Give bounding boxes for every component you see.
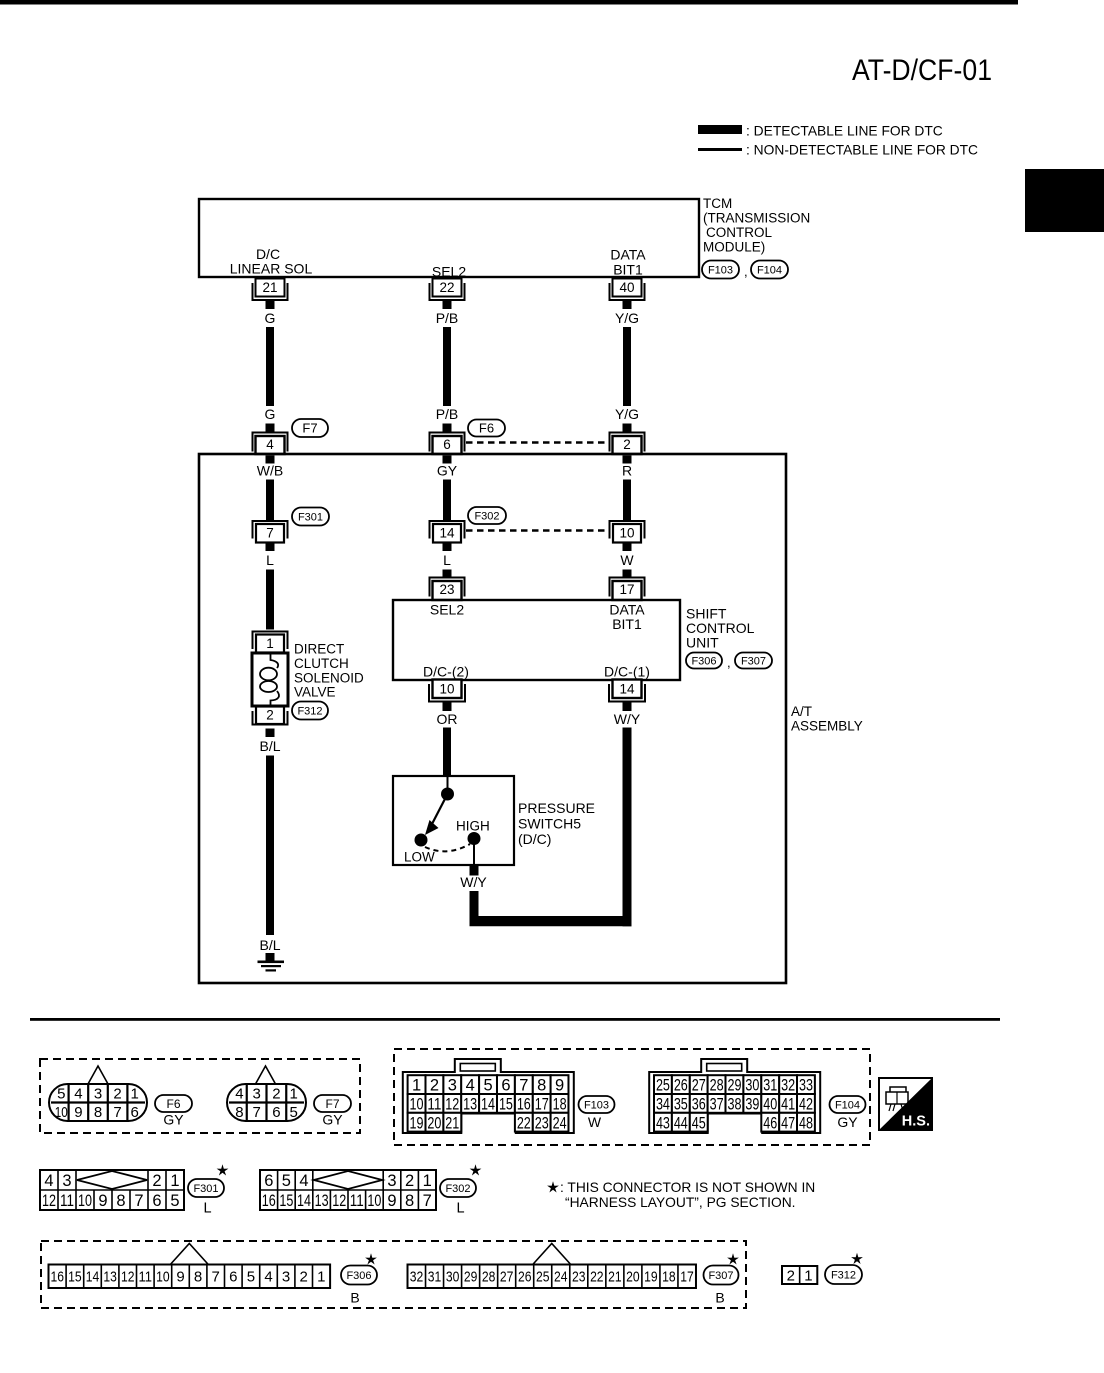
connector F306 oval label: [341, 1266, 377, 1285]
svg-text:DATA: DATA: [610, 247, 646, 263]
svg-text:6: 6: [272, 1104, 280, 1121]
svg-text:5: 5: [282, 1172, 291, 1190]
svg-text:5: 5: [289, 1104, 297, 1121]
connector F312 oval (solenoid): [292, 702, 328, 720]
svg-text:HIGH: HIGH: [456, 819, 490, 834]
svg-text:9: 9: [387, 1192, 396, 1210]
svg-text:F301: F301: [298, 511, 323, 523]
svg-text:F307: F307: [741, 655, 766, 667]
svg-text:DIRECT: DIRECT: [294, 642, 344, 657]
svg-text:31: 31: [763, 1077, 777, 1095]
svg-text:17: 17: [619, 582, 634, 597]
svg-text:15: 15: [499, 1096, 513, 1114]
connector view F307: [533, 1244, 571, 1265]
svg-text:22: 22: [517, 1114, 531, 1132]
svg-text:6: 6: [229, 1269, 237, 1286]
svg-text:P/B: P/B: [436, 406, 459, 422]
svg-text:1: 1: [266, 636, 274, 651]
connector F306 oval (SCU): [686, 653, 722, 669]
wire stub below boundary pin (GY): [443, 456, 452, 464]
wire OR to pressure switch: [443, 728, 451, 776]
svg-text:25: 25: [536, 1269, 550, 1286]
svg-text:39: 39: [745, 1096, 759, 1114]
svg-text:17: 17: [680, 1269, 694, 1286]
svg-text:15: 15: [279, 1192, 293, 1210]
svg-text:: DETECTABLE LINE FOR DTC: : DETECTABLE LINE FOR DTC: [746, 124, 943, 139]
wire GY: [443, 480, 451, 522]
svg-text:24: 24: [553, 1114, 567, 1132]
svg-text:14: 14: [297, 1192, 311, 1210]
svg-text:4: 4: [466, 1077, 475, 1095]
solenoid pin 2: [256, 707, 284, 725]
SCU pin 17: [610, 578, 645, 597]
svg-text:46: 46: [763, 1114, 777, 1132]
svg-text:SEL2: SEL2: [430, 602, 464, 618]
svg-text:35: 35: [674, 1096, 688, 1114]
svg-text:11: 11: [427, 1096, 441, 1114]
svg-text:GY: GY: [437, 463, 458, 479]
HIGH contact dot: [468, 832, 481, 845]
svg-text:6: 6: [152, 1192, 161, 1210]
TCM box: [199, 199, 699, 277]
svg-text:F306: F306: [691, 655, 716, 667]
legend: detectable line sample: [698, 125, 742, 134]
svg-text:G: G: [265, 310, 276, 326]
svg-text:F312: F312: [831, 1269, 856, 1281]
svg-text:W/Y: W/Y: [460, 874, 487, 890]
svg-text:41: 41: [781, 1096, 795, 1114]
svg-text:4: 4: [299, 1172, 308, 1190]
svg-text:,: ,: [744, 264, 748, 279]
wire W/Y col3 down: [623, 728, 632, 927]
wire stub below solenoid: [266, 729, 275, 738]
svg-text:A/T: A/T: [791, 704, 812, 719]
wire W/B: [266, 480, 274, 522]
separator rule: [30, 1018, 1000, 1021]
H.S. connector glyph: [886, 1087, 908, 1104]
connector view F103: [403, 1059, 574, 1133]
svg-text:1: 1: [170, 1172, 179, 1190]
svg-text:L: L: [456, 1201, 464, 1217]
svg-text:38: 38: [727, 1096, 741, 1114]
switch common contact dot: [441, 788, 454, 801]
svg-text:10: 10: [55, 1104, 68, 1121]
svg-text:G: G: [265, 406, 276, 422]
ground symbol: [258, 961, 285, 964]
svg-text:18: 18: [662, 1269, 676, 1286]
svg-text:W/Y: W/Y: [614, 711, 641, 727]
svg-text:5: 5: [483, 1077, 492, 1095]
svg-text:15: 15: [68, 1269, 82, 1286]
svg-text:CONTROL: CONTROL: [706, 225, 772, 240]
svg-text:9: 9: [98, 1192, 107, 1210]
svg-text:F7: F7: [325, 1097, 339, 1111]
svg-text:16: 16: [262, 1192, 276, 1210]
svg-text:B: B: [350, 1290, 359, 1306]
dashed group box F103/F104: [394, 1049, 870, 1145]
svg-text:32: 32: [781, 1077, 795, 1095]
svg-text:1: 1: [317, 1269, 325, 1286]
svg-text:: NON-DETECTABLE LINE FOR DTC: : NON-DETECTABLE LINE FOR DTC: [746, 143, 978, 158]
svg-text:LOW: LOW: [404, 850, 435, 865]
wire stub below boundary pin (R): [623, 456, 632, 464]
svg-text:34: 34: [656, 1096, 670, 1114]
svg-text:VALVE: VALVE: [294, 685, 336, 700]
solenoid pin 1: [253, 632, 288, 650]
svg-text:6: 6: [443, 437, 451, 452]
svg-text:9: 9: [176, 1269, 184, 1286]
svg-text:27: 27: [692, 1077, 706, 1095]
svg-text:13: 13: [103, 1269, 117, 1286]
svg-text:40: 40: [619, 280, 634, 295]
TCM pin 21: [256, 279, 285, 297]
svg-text:1: 1: [804, 1267, 812, 1284]
connector view F306: [170, 1244, 208, 1265]
svg-text:9: 9: [555, 1077, 564, 1095]
connector F301 oval label: [188, 1179, 224, 1197]
connector view F7: [256, 1066, 276, 1084]
svg-text:ASSEMBLY: ASSEMBLY: [791, 719, 863, 734]
star F301: [217, 1164, 229, 1175]
svg-text:12: 12: [42, 1192, 56, 1210]
connector F312 oval label: [825, 1265, 862, 1284]
svg-text:19: 19: [410, 1114, 424, 1132]
star F306: [365, 1253, 377, 1264]
svg-text:2: 2: [266, 708, 274, 723]
svg-text:21: 21: [262, 280, 277, 295]
svg-text:3: 3: [252, 1086, 260, 1103]
svg-text:25: 25: [656, 1077, 670, 1095]
wire R: [623, 480, 631, 522]
SCU pin 14: [613, 680, 642, 699]
svg-text:20: 20: [626, 1269, 640, 1286]
svg-text:5: 5: [57, 1086, 65, 1103]
svg-text:8: 8: [116, 1192, 125, 1210]
svg-text:3: 3: [94, 1086, 102, 1103]
svg-text:D/C-(1): D/C-(1): [604, 664, 650, 680]
svg-text:12: 12: [121, 1269, 135, 1286]
connector view F104: [649, 1059, 820, 1133]
svg-text:B/L: B/L: [259, 738, 280, 754]
wire G TCM to F6/F7: [266, 327, 274, 406]
stub above pin 23: [443, 570, 452, 579]
svg-text:8: 8: [94, 1104, 102, 1121]
svg-text:11: 11: [139, 1269, 153, 1286]
wire L to solenoid: [266, 570, 274, 630]
PRESSURE SWITCH5 box: [393, 776, 514, 865]
svg-text:7: 7: [134, 1192, 143, 1210]
svg-text:2: 2: [623, 437, 631, 452]
svg-text:SEL2: SEL2: [432, 264, 466, 280]
svg-text:6: 6: [264, 1172, 273, 1190]
ground stub: [266, 953, 275, 961]
svg-text:SOLENOID: SOLENOID: [294, 671, 364, 686]
svg-text:AT-D/CF-01: AT-D/CF-01: [852, 54, 992, 87]
svg-text:F306: F306: [346, 1270, 371, 1282]
dashed throw arc: [425, 844, 470, 851]
svg-text:13: 13: [463, 1096, 477, 1114]
dashed group box F6/F7: [40, 1059, 360, 1133]
svg-text:40: 40: [763, 1096, 777, 1114]
connector view F6: [88, 1066, 108, 1084]
svg-text:UNIT: UNIT: [686, 635, 719, 651]
connector F6 oval label: [155, 1095, 192, 1112]
svg-text:F302: F302: [445, 1183, 470, 1195]
svg-text:1: 1: [412, 1077, 421, 1095]
svg-text:L: L: [203, 1201, 211, 1217]
svg-text:26: 26: [518, 1269, 532, 1286]
svg-text:3: 3: [282, 1269, 290, 1286]
svg-text:F103: F103: [584, 1099, 609, 1111]
svg-text:F104: F104: [835, 1099, 860, 1111]
svg-text:BIT1: BIT1: [613, 262, 643, 278]
svg-text:4: 4: [266, 437, 274, 452]
wire stub above boundary pin: [623, 424, 632, 433]
svg-text:16: 16: [517, 1096, 531, 1114]
svg-text:7: 7: [113, 1104, 121, 1121]
svg-text:,: ,: [727, 655, 731, 670]
svg-text:MODULE): MODULE): [703, 240, 765, 255]
wire B/L to ground: [266, 756, 274, 936]
svg-text:F6: F6: [479, 421, 494, 436]
svg-text:F312: F312: [297, 705, 322, 717]
svg-text:F103: F103: [708, 264, 733, 276]
connector F104 oval (TCM): [751, 261, 788, 279]
top rule bar: [0, 0, 1018, 5]
svg-text:W: W: [588, 1114, 602, 1130]
svg-text:21: 21: [608, 1269, 622, 1286]
svg-text:2: 2: [787, 1267, 795, 1284]
svg-text:33: 33: [799, 1077, 813, 1095]
svg-text:2: 2: [430, 1077, 439, 1095]
svg-text:44: 44: [674, 1114, 688, 1132]
svg-text:D/C-(2): D/C-(2): [423, 664, 469, 680]
svg-text:5: 5: [247, 1269, 255, 1286]
SCU pin 10: [433, 680, 462, 699]
connector F307 oval label: [704, 1266, 739, 1285]
svg-text:17: 17: [535, 1096, 549, 1114]
svg-text:48: 48: [799, 1114, 813, 1132]
svg-text:W: W: [620, 552, 634, 568]
svg-text:7: 7: [266, 526, 274, 541]
svg-text:10: 10: [619, 526, 634, 541]
svg-text:36: 36: [692, 1096, 706, 1114]
A/T boundary pin 2: [610, 433, 645, 452]
connector F7 oval label: [314, 1095, 351, 1112]
wire P/B TCM to F6/F7: [443, 327, 451, 406]
wire stub below boundary pin (W/B): [266, 456, 275, 464]
switch feed line: [447, 776, 449, 791]
svg-text:31: 31: [428, 1269, 442, 1286]
svg-text:23: 23: [572, 1269, 586, 1286]
svg-text:CLUTCH: CLUTCH: [294, 656, 349, 671]
wire W/Y elbow: [470, 891, 632, 926]
svg-text:GY: GY: [163, 1112, 184, 1128]
footnote star: [547, 1181, 559, 1192]
svg-text:6: 6: [501, 1077, 510, 1095]
svg-text:LINEAR SOL: LINEAR SOL: [230, 261, 313, 277]
svg-text:L: L: [443, 552, 451, 568]
svg-text:7: 7: [252, 1104, 260, 1121]
svg-text:7: 7: [519, 1077, 528, 1095]
svg-text:8: 8: [235, 1104, 243, 1121]
svg-text:21: 21: [445, 1114, 459, 1132]
svg-text:14: 14: [86, 1269, 100, 1286]
svg-text:14: 14: [439, 526, 455, 541]
svg-text:BIT1: BIT1: [612, 616, 642, 632]
svg-text:4: 4: [74, 1086, 82, 1103]
svg-text:14: 14: [619, 682, 635, 697]
svg-text:L: L: [266, 552, 274, 568]
stub below pressure switch: [470, 866, 479, 876]
H.S. view mark: [879, 1078, 932, 1130]
connector F104 oval label: [830, 1096, 866, 1113]
svg-text:20: 20: [427, 1114, 441, 1132]
svg-text:W/B: W/B: [257, 463, 283, 479]
svg-text:3: 3: [448, 1077, 457, 1095]
HIGH contact lead: [473, 839, 475, 866]
svg-text:F6: F6: [166, 1097, 180, 1111]
svg-text:10: 10: [78, 1192, 92, 1210]
svg-text:Y/G: Y/G: [615, 310, 639, 326]
svg-text:Y/G: Y/G: [615, 406, 639, 422]
svg-text:4: 4: [44, 1172, 53, 1190]
wire Y/G TCM to F6/F7: [623, 327, 631, 406]
connector view F301: [40, 1170, 184, 1210]
svg-text:9: 9: [74, 1104, 82, 1121]
svg-text:30: 30: [446, 1269, 460, 1286]
svg-text:29: 29: [464, 1269, 478, 1286]
svg-text:(D/C): (D/C): [518, 831, 551, 847]
svg-text:22: 22: [439, 280, 454, 295]
svg-text:47: 47: [781, 1114, 795, 1132]
svg-text:16: 16: [51, 1269, 65, 1286]
svg-text:8: 8: [537, 1077, 546, 1095]
legend: non-detectable line sample: [698, 148, 742, 151]
dashed pairing line F6: pin6 to pin2: [466, 441, 608, 444]
svg-text:23: 23: [535, 1114, 549, 1132]
star F312: [851, 1253, 863, 1264]
svg-text:28: 28: [710, 1077, 724, 1095]
svg-text:H.S.: H.S.: [902, 1114, 930, 1130]
svg-text:2: 2: [405, 1172, 414, 1190]
dashed group box F306/F307: [41, 1241, 746, 1308]
connector F301 oval: [292, 508, 329, 526]
svg-text:14: 14: [481, 1096, 495, 1114]
dashed pairing line F302: pin14 to pin10: [466, 529, 608, 532]
switch arm with arrow: [432, 794, 448, 824]
stub above pin 17: [623, 570, 632, 579]
svg-text:45: 45: [692, 1114, 706, 1132]
svg-text:11: 11: [60, 1192, 74, 1210]
svg-text:10: 10: [367, 1192, 381, 1210]
A/T boundary pin 4: [253, 433, 288, 452]
svg-text:SWITCH5: SWITCH5: [518, 816, 581, 832]
svg-text:2: 2: [152, 1172, 161, 1190]
svg-text:11: 11: [350, 1192, 364, 1210]
svg-text:13: 13: [315, 1192, 329, 1210]
svg-text:8: 8: [405, 1192, 414, 1210]
svg-text:7: 7: [212, 1269, 220, 1286]
svg-text:“HARNESS LAYOUT”, PG SECTION.: “HARNESS LAYOUT”, PG SECTION.: [565, 1195, 796, 1210]
LOW contact dot: [415, 834, 428, 847]
svg-text:8: 8: [194, 1269, 202, 1286]
svg-text:43: 43: [656, 1114, 670, 1132]
svg-text:2: 2: [300, 1269, 308, 1286]
svg-text:18: 18: [553, 1096, 567, 1114]
TCM pin 40: [613, 279, 642, 297]
svg-text:3: 3: [387, 1172, 396, 1190]
svg-text:12: 12: [445, 1096, 459, 1114]
section tab black block: [1025, 169, 1104, 232]
svg-text:42: 42: [799, 1096, 813, 1114]
connector F6 oval: [468, 420, 505, 437]
mid connector pin 7 (F301): [253, 521, 288, 539]
svg-text:22: 22: [590, 1269, 604, 1286]
connector F302 oval: [468, 507, 506, 524]
svg-text:10: 10: [439, 682, 454, 697]
svg-text:1: 1: [131, 1086, 139, 1103]
svg-text:3: 3: [62, 1172, 71, 1190]
svg-text:1: 1: [423, 1172, 432, 1190]
solenoid coil: [271, 654, 279, 668]
svg-text:6: 6: [131, 1104, 139, 1121]
svg-text:B/L: B/L: [259, 937, 280, 953]
svg-text:32: 32: [410, 1269, 424, 1286]
SHIFT CONTROL UNIT box: [393, 600, 680, 680]
svg-text:4: 4: [264, 1269, 272, 1286]
svg-text:19: 19: [644, 1269, 658, 1286]
svg-text:5: 5: [170, 1192, 179, 1210]
direct clutch solenoid valve body: [252, 653, 288, 706]
svg-text:2: 2: [113, 1086, 121, 1103]
svg-text:B: B: [715, 1290, 724, 1306]
connector view F312: [782, 1266, 817, 1284]
svg-text:: THIS CONNECTOR IS NOT SHOWN: : THIS CONNECTOR IS NOT SHOWN IN: [560, 1180, 815, 1195]
wire stub above boundary pin: [266, 424, 275, 433]
svg-text:7: 7: [423, 1192, 432, 1210]
svg-text:PRESSURE: PRESSURE: [518, 800, 595, 816]
star F307: [727, 1253, 739, 1264]
svg-text:OR: OR: [437, 711, 458, 727]
svg-text:F307: F307: [708, 1270, 733, 1282]
svg-text:P/B: P/B: [436, 310, 459, 326]
svg-text:GY: GY: [322, 1112, 343, 1128]
A/T ASSEMBLY box: [199, 454, 786, 983]
SCU pin 23: [430, 578, 465, 597]
svg-text:1: 1: [289, 1086, 297, 1103]
A/T boundary pin 6: [430, 433, 465, 452]
svg-text:23: 23: [439, 582, 454, 597]
svg-text:4: 4: [235, 1086, 243, 1103]
TCM pin 22: [433, 279, 462, 297]
star F302: [470, 1164, 482, 1175]
svg-text:10: 10: [410, 1096, 424, 1114]
svg-text:F301: F301: [193, 1183, 218, 1195]
svg-text:R: R: [622, 463, 632, 479]
svg-text:37: 37: [710, 1096, 724, 1114]
svg-text:F7: F7: [302, 421, 317, 436]
svg-text:27: 27: [500, 1269, 514, 1286]
connector F7 oval: [292, 419, 328, 437]
connector F103 oval (TCM): [702, 261, 739, 279]
svg-text:GY: GY: [837, 1114, 858, 1130]
connector F307 oval (SCU): [735, 653, 772, 669]
svg-text:F302: F302: [474, 510, 499, 522]
svg-text:(TRANSMISSION: (TRANSMISSION: [703, 211, 810, 226]
svg-text:10: 10: [156, 1269, 170, 1286]
connector F302 oval label: [440, 1179, 476, 1197]
